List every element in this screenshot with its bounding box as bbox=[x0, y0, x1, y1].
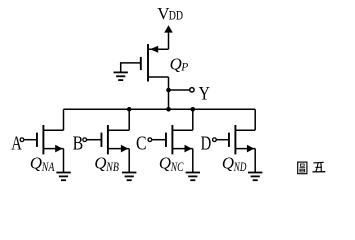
VDD supply arrow bbox=[164, 25, 173, 32]
wire VDD to QP source bbox=[168, 32, 170, 50]
wire QNC source to ground bbox=[192, 149, 194, 172]
svg-text:Q: Q bbox=[222, 153, 235, 172]
wire C to QNC gate bbox=[152, 139, 166, 141]
wire output bus bbox=[64, 108, 256, 110]
label QNA bbox=[30, 153, 55, 174]
ground (QND) bbox=[248, 173, 262, 181]
wire QNA source to ground bbox=[63, 149, 65, 172]
label VDD bbox=[157, 4, 183, 23]
svg-text:A: A bbox=[11, 133, 22, 154]
svg-text:D: D bbox=[201, 133, 212, 154]
terminal B (open circle) bbox=[83, 138, 87, 142]
junction dot QP drain on bus bbox=[166, 107, 171, 112]
transistor QNC (NMOS) bbox=[166, 125, 193, 154]
wire QNC drain to bus bbox=[192, 109, 194, 130]
junction dot QNB drain on bus bbox=[127, 107, 132, 112]
svg-text:DD: DD bbox=[169, 9, 183, 23]
wire QNA drain to bus bbox=[63, 109, 65, 130]
wire B to QNB gate bbox=[87, 139, 102, 141]
node Y junction dot bbox=[166, 88, 171, 93]
caption "圖五" (Figure 5) bbox=[298, 162, 326, 174]
ground (QNA) bbox=[56, 173, 70, 181]
svg-text:P: P bbox=[180, 61, 188, 73]
terminal C (open circle) bbox=[148, 138, 152, 142]
wire junction to Y terminal bbox=[169, 89, 190, 91]
label QND bbox=[222, 153, 247, 174]
wire QP drain to output bus bbox=[168, 77, 170, 109]
terminal D (open circle) bbox=[213, 138, 217, 142]
svg-text:B: B bbox=[73, 133, 84, 154]
ground (QNC) bbox=[186, 173, 200, 181]
wire QNB drain to bus bbox=[128, 109, 130, 130]
svg-text:C: C bbox=[136, 133, 147, 154]
label QNB bbox=[94, 153, 119, 174]
ground (QP gate) bbox=[114, 72, 128, 80]
wire A to QNA gate bbox=[24, 139, 37, 141]
character 五 bbox=[312, 162, 325, 172]
transistor QNA (NMOS) bbox=[37, 125, 64, 154]
wire QNB source to ground bbox=[128, 149, 130, 172]
label QP bbox=[170, 55, 189, 74]
svg-text:NC: NC bbox=[170, 160, 184, 174]
svg-text:Q: Q bbox=[94, 153, 107, 172]
wire QP gate to ground bbox=[121, 63, 141, 72]
svg-text:NB: NB bbox=[106, 160, 120, 174]
wire D to QND gate bbox=[216, 139, 229, 141]
svg-text:NA: NA bbox=[41, 160, 55, 174]
ground (QNB) bbox=[122, 173, 136, 181]
terminal Y (open circle) bbox=[190, 88, 194, 92]
label QNC bbox=[159, 153, 184, 174]
terminal A (open circle) bbox=[20, 138, 24, 142]
svg-text:Q: Q bbox=[159, 153, 172, 172]
transistor QP (PMOS) bbox=[141, 44, 169, 82]
wire QND drain to bus bbox=[254, 109, 256, 130]
transistor QND (NMOS) bbox=[229, 125, 255, 154]
junction dot QNC drain on bus bbox=[191, 107, 196, 112]
character 圖 bbox=[298, 162, 307, 174]
svg-text:Q: Q bbox=[30, 153, 43, 172]
wire QND source to ground bbox=[254, 149, 256, 172]
svg-text:Y: Y bbox=[199, 85, 210, 105]
transistor QNB (NMOS) bbox=[101, 125, 129, 154]
svg-text:ND: ND bbox=[233, 160, 246, 174]
